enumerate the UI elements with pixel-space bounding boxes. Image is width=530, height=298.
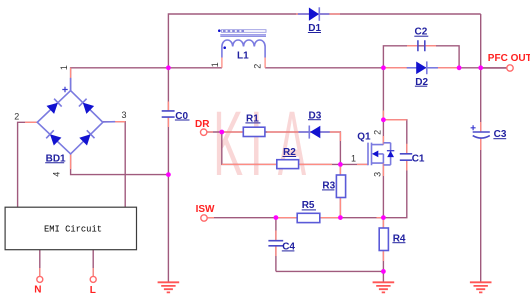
junction PFC OUT node (478, 65, 483, 70)
pin stubs of C2 (407, 45, 436, 47)
wire DR to R1 D3 row (207, 132, 341, 164)
svg-text:1: 1 (210, 62, 220, 67)
pin stub of Q1 source (382, 163, 384, 176)
diode D3 (299, 126, 330, 139)
svg-text:1: 1 (59, 65, 69, 70)
net L (90, 276, 96, 282)
junction C0 top (166, 65, 171, 70)
capacitor C1 (400, 154, 412, 160)
svg-text:N: N (34, 285, 41, 296)
junction D2 cathode (457, 65, 462, 70)
pin stubs of R4 (382, 218, 384, 261)
EMI Circuit box (5, 207, 136, 250)
wire node4 of bridge (71, 154, 169, 175)
KIA watermark (213, 92, 306, 195)
junction R3 bottom (338, 215, 343, 220)
svg-text:3: 3 (122, 110, 127, 120)
plus mark of BD1 (62, 87, 67, 92)
pin stubs of Q1 drain (383, 111, 406, 145)
svg-text:I: I (250, 92, 263, 195)
wire gate feed (340, 163, 368, 165)
diode BD1 top-right (83, 103, 94, 114)
pin stubs of C0 (167, 102, 169, 128)
wire R3 branch (339, 164, 341, 217)
capacitor C3 (471, 125, 490, 138)
pin stubs of D1 (296, 13, 340, 15)
svg-text:L1: L1 (237, 50, 249, 61)
svg-text:1: 1 (351, 153, 356, 163)
diode D1 (298, 7, 330, 20)
wire C2 loop (383, 46, 459, 68)
wire main row left (71, 68, 222, 91)
junction R4 bottom (381, 269, 386, 274)
pin stubs of C4 (275, 231, 277, 257)
junction D2 anode (381, 65, 386, 70)
pin stubs of R2 and Q1 gate (222, 163, 368, 165)
svg-text:DR: DR (195, 119, 210, 130)
capacitor C2 (418, 40, 425, 51)
ground 3 (470, 282, 492, 292)
wire C4 branch (275, 218, 277, 272)
svg-text:2: 2 (253, 64, 263, 69)
svg-text:K: K (213, 94, 243, 196)
wire EMI to N pin (39, 250, 41, 277)
wire Q1 drain branch (382, 68, 384, 145)
wire R4 branch (382, 218, 384, 283)
wire to PFC OUT pin (481, 67, 507, 69)
wire bottom row C4 to R4 (276, 270, 384, 272)
svg-text:3: 3 (373, 172, 383, 177)
bridge rectifier BD1 (37, 78, 115, 154)
pin stubs of BD1 pins 1 and 4 (70, 68, 72, 169)
resistor R3 (336, 175, 345, 198)
wire node3 to EMI (103, 122, 125, 208)
pin stubs of R5 row (206, 217, 384, 219)
svg-text:Q1: Q1 (357, 131, 371, 142)
pin stubs of N and L pins (40, 268, 93, 277)
svg-text:A: A (278, 93, 306, 196)
resistor R2 (277, 160, 299, 169)
wire ISW row (207, 160, 407, 218)
wire C0 branch (167, 68, 169, 282)
wire node2 to EMI (18, 122, 38, 207)
wire R2 row (222, 132, 341, 164)
pin stubs of C1 (406, 144, 408, 171)
junction C4 top (274, 215, 279, 220)
wire C1 top branch (383, 120, 406, 154)
junction C0 bottom (166, 172, 171, 177)
svg-text:2: 2 (372, 130, 382, 135)
diode D2 (407, 61, 438, 74)
pin stubs of BD1 pins 2 and 3 (25, 121, 125, 124)
net N (37, 276, 43, 282)
resistor R1 (243, 127, 265, 136)
bridge diodes (drawn over edges) (46, 99, 94, 146)
diode BD1 bottom-left (50, 134, 61, 145)
wire EMI to L pin (92, 250, 94, 277)
pin stubs of D2 (383, 67, 459, 69)
wire Q1 source branch (382, 163, 384, 218)
svg-text:PFC OUT: PFC OUT (488, 53, 530, 64)
junction Q1 drain / C1 (381, 117, 386, 122)
transistor Q1 (368, 143, 394, 166)
junction node 1 (338, 162, 343, 167)
capacitor C4 (268, 241, 283, 246)
net ISW (201, 215, 207, 221)
wire top loop (168, 14, 480, 68)
inductor L1 (218, 29, 266, 57)
junction DR node (219, 130, 224, 135)
diode BD1 top-left (47, 103, 58, 114)
resistor R5 (297, 213, 320, 222)
net PFC OUT (507, 65, 513, 71)
net DR (201, 129, 207, 135)
svg-text:4: 4 (52, 172, 62, 177)
capacitor C0 (162, 111, 175, 117)
junction Q1 source / R4 (381, 215, 386, 220)
wire PFC right vertical (480, 14, 482, 282)
ground 2 (373, 282, 395, 292)
svg-text:C1: C1 (412, 154, 425, 165)
svg-text:EMI Circuit: EMI Circuit (44, 224, 102, 234)
svg-text:2: 2 (14, 111, 19, 121)
wire main row right of L1 (265, 67, 509, 69)
svg-text:L: L (90, 285, 96, 296)
pin stubs of L1 (222, 58, 265, 68)
diode BD1 bottom-right (79, 134, 90, 145)
ground 1 (158, 282, 180, 292)
resistor R4 (379, 228, 388, 251)
svg-text:ISW: ISW (196, 204, 215, 215)
pin stubs of R3 (339, 164, 341, 217)
pin stubs of R1 and D3 (207, 132, 340, 141)
pin stubs of C3 (480, 122, 482, 150)
